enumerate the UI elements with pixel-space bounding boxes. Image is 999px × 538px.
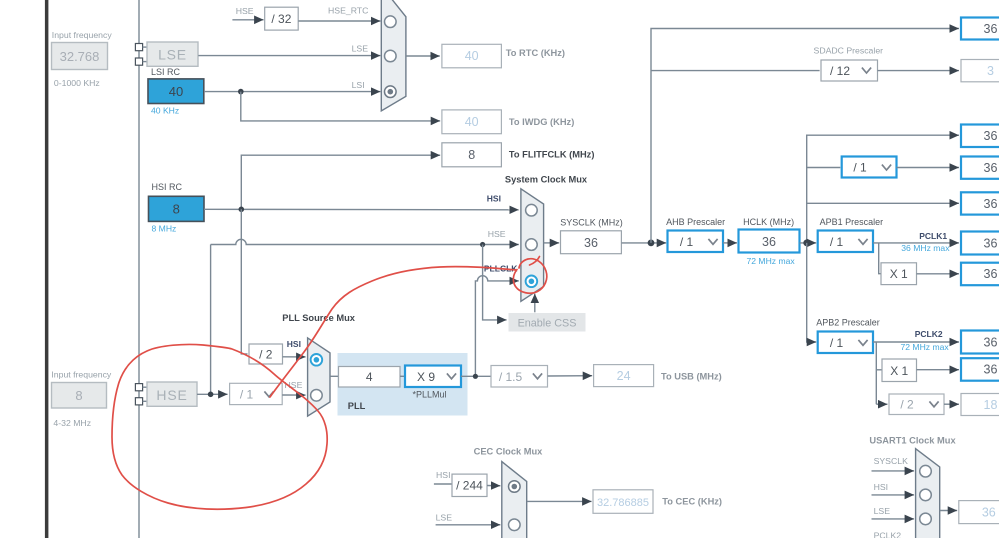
wire CSS branch to Enable CSS [483, 245, 507, 320]
wire PLL output to USB divider [461, 375, 491, 377]
box: FCLK output 36 [961, 125, 999, 148]
svg-text:HSE: HSE [488, 229, 506, 239]
annotation red loop around HSE [112, 344, 327, 509]
radio USART LSE [920, 513, 932, 525]
svg-text:To IWDG (KHz): To IWDG (KHz) [509, 117, 574, 127]
svg-text:/ 2: / 2 [900, 398, 914, 412]
svg-text:PLL Source Mux: PLL Source Mux [282, 313, 355, 323]
svg-text:36: 36 [984, 129, 998, 143]
svg-text:X 1: X 1 [890, 267, 908, 281]
svg-text:LSI RC: LSI RC [151, 67, 181, 77]
annotation red curl [530, 257, 540, 266]
svg-text:PCLK2: PCLK2 [915, 329, 943, 339]
svg-text:/ 1: / 1 [240, 387, 254, 401]
svg-text:CEC Clock Mux: CEC Clock Mux [474, 446, 544, 456]
wire branch to HCLK peripheral output [807, 202, 959, 204]
box: PLL input value 4 [339, 367, 401, 388]
dropdown AHB prescaler /1 [668, 231, 724, 253]
svg-text:X 1: X 1 [890, 364, 908, 378]
svg-text:24: 24 [617, 369, 631, 383]
junction on LSI wire [238, 89, 244, 95]
svg-text:Input frequency: Input frequency [52, 30, 113, 40]
box: APB1 timer output 36 [961, 263, 999, 286]
wire branch to ADC /2 [876, 403, 887, 405]
svg-text:HSE_RTC: HSE_RTC [328, 5, 368, 15]
wire /2 to ADC output [944, 403, 959, 405]
wire HSI/2 riser to PLL source mux [241, 209, 247, 354]
junction HCLK distribution [803, 240, 810, 247]
box: USB output 24 [594, 365, 654, 387]
oscillator LSE [143, 42, 198, 66]
wire HSI stub to USART mux [872, 494, 915, 496]
svg-text:3: 3 [987, 64, 994, 78]
svg-text:To RTC (KHz): To RTC (KHz) [506, 48, 565, 58]
wire riser to APB2 prescaler [807, 243, 817, 342]
mux CEC Clock Mux [502, 462, 527, 538]
svg-text:72 MHz max: 72 MHz max [746, 256, 795, 266]
radio PLLCLK selected [526, 276, 538, 288]
wire /2 to PLL source mux [283, 356, 306, 358]
svg-text:8: 8 [75, 388, 82, 403]
wire SYSCLK stub to USART mux [872, 470, 915, 472]
left pane divider bar [45, 0, 49, 538]
svg-text:HSI: HSI [287, 339, 301, 349]
box: HSE input frequency value 8 [52, 383, 107, 409]
radio USART HSI [920, 489, 932, 501]
svg-text:HSE: HSE [156, 387, 187, 403]
box: RTC HSE divider /32 [265, 7, 299, 30]
box: LSE input frequency value 32.768 [52, 43, 108, 70]
wire X1 to APB2 timer output [917, 369, 960, 371]
svg-text:Enable CSS: Enable CSS [518, 318, 577, 330]
svg-text:APB2 Prescaler: APB2 Prescaler [816, 318, 880, 328]
box: top right output 36 [961, 18, 999, 40]
svg-text:36: 36 [982, 506, 996, 520]
svg-text:4-32 MHz: 4-32 MHz [53, 418, 91, 428]
annotation red loop around PLLCLK radio [513, 259, 546, 294]
svg-text:To FLITFCLK (MHz): To FLITFCLK (MHz) [509, 150, 595, 160]
dropdown USB prescaler /1.5 [491, 366, 548, 388]
svg-text:36: 36 [984, 22, 998, 36]
svg-text:/ 1: / 1 [680, 235, 694, 249]
wire LSE to RTC mux [198, 55, 380, 57]
svg-text:SDADC Prescaler: SDADC Prescaler [814, 46, 884, 56]
block PLL background [338, 353, 468, 416]
svg-text:USART1 Clock Mux: USART1 Clock Mux [869, 435, 956, 445]
oscillator HSI RC 8 [149, 196, 205, 221]
svg-text:/ 244: / 244 [456, 479, 483, 493]
wire /32 to RTC mux [298, 20, 380, 22]
svg-text:40: 40 [465, 49, 479, 63]
svg-text:72 MHz max: 72 MHz max [900, 342, 949, 352]
svg-text:36: 36 [984, 363, 998, 377]
svg-text:HSI: HSI [436, 470, 450, 480]
junction PLL output [473, 374, 478, 379]
svg-text:HSI RC: HSI RC [152, 182, 183, 192]
box: AHB peripheral output 36 [961, 192, 999, 214]
junction on HSE output [208, 392, 214, 398]
svg-text:System Clock Mux: System Clock Mux [505, 175, 588, 185]
svg-text:LSI: LSI [352, 80, 365, 90]
wire mux to SYSCLK box [544, 242, 560, 244]
svg-text:LSE: LSE [158, 47, 187, 63]
wire riser to I2S output [651, 29, 959, 243]
wire /244 to CEC mux [487, 485, 500, 487]
pin squares LSE [135, 44, 142, 66]
svg-text:PCLK1: PCLK1 [919, 231, 947, 241]
box: PCLK1 output 36 [961, 232, 999, 255]
svg-text:HCLK (MHz): HCLK (MHz) [743, 217, 794, 227]
svg-text:To USB (MHz): To USB (MHz) [661, 371, 722, 381]
wire AHB to HCLK [723, 242, 737, 244]
svg-text:SYSCLK: SYSCLK [874, 456, 908, 466]
radio HSI [526, 204, 538, 216]
box: CEC output 32.786885 [593, 490, 653, 514]
wire to SDADC prescaler [651, 70, 820, 72]
oscillator LSI RC 40 [148, 79, 204, 104]
svg-text:APB1 Prescaler: APB1 Prescaler [820, 217, 884, 227]
radio PLL HSI selected [311, 354, 323, 366]
box: PLL HSI divider /2 [249, 344, 283, 364]
wire SYSCLK to AHB prescaler [622, 242, 667, 244]
wire APB2 branch down [875, 342, 877, 404]
svg-text:4: 4 [366, 370, 373, 384]
wire HSI branch to FLITFCLK [241, 155, 440, 209]
svg-text:36: 36 [984, 335, 998, 349]
mux PLL Source Mux [308, 338, 330, 416]
wire mux to PLL input [330, 375, 339, 377]
wire /1 to PLL source mux [282, 394, 305, 396]
svg-text:36 MHz max: 36 MHz max [901, 243, 950, 253]
svg-text:18: 18 [984, 398, 998, 412]
box: APB1 timer multiplier X 1 [881, 263, 917, 285]
svg-text:8: 8 [468, 148, 475, 162]
radio PLL HSE [311, 390, 323, 402]
wire /1 to output 36 [897, 167, 960, 169]
mux System Clock Mux [521, 189, 544, 301]
wire HCLK to APB1 prescaler [800, 242, 817, 244]
svg-text:LSE: LSE [874, 506, 891, 516]
wire /1.5 to USB output [548, 375, 593, 377]
svg-text:*PLLMul: *PLLMul [412, 389, 446, 399]
svg-text:8: 8 [173, 202, 180, 217]
button Enable CSS [509, 313, 586, 332]
radio HSE_RTC [385, 16, 397, 28]
wire HSE stub to /32 divider [232, 19, 263, 21]
box: cortex output 36 [961, 157, 999, 179]
wire USART mux output [940, 510, 958, 512]
svg-text:0-1000 KHz: 0-1000 KHz [54, 78, 100, 88]
radio CEC LSE [509, 519, 521, 531]
junction feeding top outputs [648, 240, 655, 247]
mux USART1 Clock Mux [916, 449, 940, 538]
oscillator HSE [143, 382, 197, 406]
svg-text:36: 36 [762, 235, 776, 249]
svg-text:36: 36 [984, 236, 998, 250]
diagram left rail [138, 0, 140, 538]
wire PLLCLK riser to System Clock Mux with hop [475, 276, 518, 377]
box: APB2 timer multiplier X 1 [882, 359, 917, 382]
wire LSI to RTC mux [204, 91, 380, 93]
svg-text:SYSCLK (MHz): SYSCLK (MHz) [560, 218, 623, 228]
svg-text:PLL: PLL [348, 401, 366, 411]
wire branch to /1 divider [807, 167, 841, 169]
svg-text:36: 36 [984, 267, 998, 281]
wire riser HCLK to FCLK output [807, 135, 959, 243]
box: SDADC output 3 [961, 60, 999, 82]
dropdown APB2 prescaler /1 [818, 332, 873, 354]
svg-text:/ 2: / 2 [259, 347, 273, 361]
box: ADC output 18 [961, 394, 999, 416]
junction on HSE wire for CSS [480, 242, 485, 247]
wire LSE stub to CEC mux [436, 524, 501, 526]
dropdown PLLMul X 9 [405, 366, 461, 388]
svg-text:HSE: HSE [236, 6, 254, 16]
box: To IWDG value 40 [442, 110, 502, 134]
radio CEC HSI selected [509, 481, 521, 493]
svg-text:AHB Prescaler: AHB Prescaler [666, 217, 725, 227]
wire SDADC to output 3 [878, 70, 960, 72]
svg-text:8 MHz: 8 MHz [152, 224, 177, 234]
dropdown cortex /1 [842, 157, 897, 178]
radio USART SYSCLK [920, 465, 932, 477]
wire LSE stub to USART mux [872, 518, 915, 520]
wire HSE box to PREDIV [197, 393, 228, 395]
svg-text:/ 1: / 1 [853, 161, 867, 175]
svg-text:32.786885: 32.786885 [597, 497, 649, 509]
svg-text:HSI: HSI [874, 482, 888, 492]
dropdown HSE PREDIV /1 [230, 383, 283, 404]
junction on HSI wire [239, 207, 245, 213]
dropdown APB1 prescaler /1 [818, 231, 873, 253]
radio LSE [385, 50, 397, 62]
svg-text:/ 1: / 1 [830, 336, 844, 350]
wire APB1 branch to timer X1 [879, 243, 881, 274]
box: SYSCLK value 36 [561, 231, 622, 254]
svg-text:40: 40 [465, 115, 479, 129]
box: To RTC value 40 [442, 44, 502, 68]
svg-text:40: 40 [169, 84, 183, 99]
box: To FLITFCLK value 8 [442, 143, 502, 167]
svg-text:LSE: LSE [352, 43, 369, 53]
dropdown SDADC /12 [821, 60, 878, 81]
radio HSE [526, 239, 538, 251]
mux RTC Clock Mux [381, 0, 406, 111]
wire HSI to System Clock Mux [204, 208, 519, 211]
svg-text:/ 32: / 32 [271, 12, 291, 26]
svg-text:36: 36 [584, 236, 598, 250]
wire X1 to timer output [917, 273, 960, 275]
wire APB2 to PCLK2 output [873, 341, 959, 343]
annotation red tail to PLLCLK [270, 267, 516, 397]
svg-text:32.768: 32.768 [60, 49, 100, 64]
wire 4 to PLLMul [400, 375, 405, 377]
wire Enable CSS up arrow [534, 294, 536, 313]
box: APB2 timer output 36 [961, 358, 999, 381]
svg-text:/ 1: / 1 [830, 235, 844, 249]
wire APB1 to PCLK1 output [873, 242, 959, 244]
svg-text:PCLK2: PCLK2 [874, 531, 902, 538]
svg-text:LSE: LSE [436, 513, 453, 523]
wire branch to APB2 timer X1 [876, 369, 882, 371]
wire RTC mux output [406, 55, 440, 57]
box: HCLK value 36 [739, 230, 800, 253]
wire CEC mux output [527, 500, 592, 502]
radio LSI selected [385, 86, 397, 98]
svg-text:/ 1.5: / 1.5 [499, 370, 523, 384]
dropdown ADC prescaler /2 [889, 394, 944, 415]
wire HSI stub to /244 [434, 483, 452, 485]
box: PCLK2 output 36 [961, 331, 999, 354]
svg-text:HSI: HSI [487, 194, 501, 204]
box: USART1 output 36 [959, 501, 999, 524]
wire HSE riser to System Clock Mux with hop [211, 239, 519, 394]
pin squares HSE [135, 384, 142, 405]
svg-text:36: 36 [984, 161, 998, 175]
wire LSI branch to IWDG [241, 92, 440, 121]
svg-text:40 KHz: 40 KHz [151, 106, 179, 116]
box: CEC divider /244 [452, 474, 487, 496]
svg-text:Input frequency: Input frequency [51, 370, 112, 380]
svg-text:36: 36 [984, 197, 998, 211]
svg-text:X 9: X 9 [417, 370, 435, 384]
svg-text:/ 12: / 12 [830, 64, 850, 78]
svg-text:To CEC (KHz): To CEC (KHz) [662, 497, 722, 507]
